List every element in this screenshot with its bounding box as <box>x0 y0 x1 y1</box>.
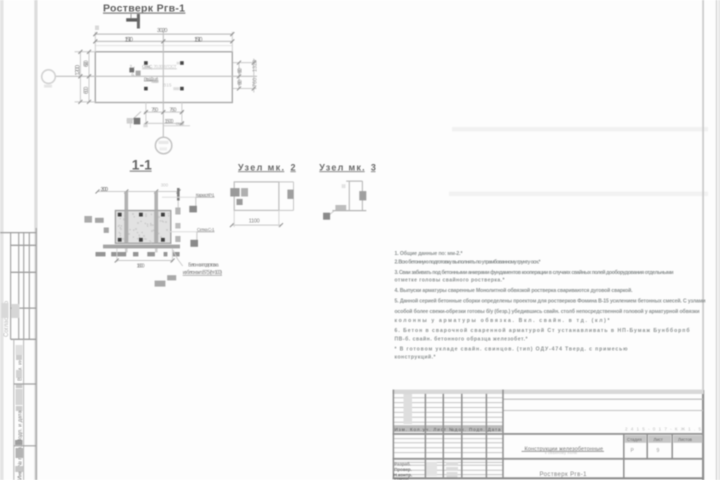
bottom dim ticks <box>144 110 184 125</box>
plan outline rectangle <box>95 52 232 103</box>
section body with stipple fill <box>115 211 170 244</box>
fold streak upper <box>452 127 708 131</box>
left paper edge shadow strip <box>0 0 4 480</box>
faint upper ledge line <box>95 45 232 47</box>
axis bubble bottom <box>155 137 171 153</box>
detail 3 leader blob <box>323 213 330 220</box>
svg-text:Утверд.: Утверд. <box>394 476 410 480</box>
title underline <box>103 12 185 13</box>
detail 3 leader <box>329 211 334 215</box>
detail 3 channel outline <box>346 180 362 182</box>
small text row under band <box>96 252 180 256</box>
axis bubble left <box>42 70 56 84</box>
svg-text:9: 9 <box>657 448 660 454</box>
detail 2 bottom dim line <box>232 224 281 226</box>
svg-text:2. Всю бетонную подготовку вып: 2. Всю бетонную подготовку выполнять по … <box>395 258 541 265</box>
bottom leader dark smudge <box>134 118 141 125</box>
bottom dim extension lines <box>146 103 182 126</box>
horizontal centerline through plan <box>55 75 257 77</box>
svg-text:Подп. и дата: Подп. и дата <box>18 410 24 443</box>
svg-text:3020: 3020 <box>157 28 168 34</box>
vertical centerline through plan <box>162 32 164 138</box>
right dim ticks <box>237 61 256 91</box>
stadia header cells <box>625 435 646 442</box>
pile strips inside section <box>124 211 128 244</box>
svg-text:1800: 1800 <box>137 263 145 269</box>
bottom border <box>393 477 704 479</box>
svg-text:конструкций.*: конструкций.* <box>395 354 436 361</box>
pile top-left <box>144 61 148 65</box>
detail 2 bolt blobs <box>230 188 239 196</box>
frame right border line (through title block, dark) <box>702 390 704 480</box>
top dimension line A <box>95 33 232 35</box>
bottom leader faint smudge <box>127 118 133 124</box>
svg-text:Ростверк Ргв-1: Ростверк Ргв-1 <box>540 472 588 478</box>
detail 3 faint square <box>342 184 346 188</box>
right extension mark dark <box>177 188 180 201</box>
tiny mark left of dim A <box>95 26 99 31</box>
plan annotation: dark square mark <box>129 68 134 73</box>
svg-text:Бетонная подготовка: Бетонная подготовка <box>188 263 219 269</box>
bottom dim line 2 <box>144 122 184 124</box>
svg-text:Стадия: Стадия <box>627 437 642 442</box>
bottom center smudge 2 <box>167 275 176 280</box>
svg-text:600: 600 <box>84 60 90 67</box>
plan annotation: leader text upper <box>147 66 152 70</box>
svg-text:ПВ-б. свайн. бетонного образца: ПВ-б. свайн. бетонного образца железобет… <box>395 335 528 342</box>
section top dim line <box>98 191 179 193</box>
svg-text:600: 600 <box>84 86 90 94</box>
right leader blob 1 <box>189 206 197 213</box>
left small text 1 <box>95 218 104 223</box>
header band izm-list <box>393 425 503 432</box>
svg-text:* В готовом укладе свайн. свин: * В готовом укладе свайн. свинцов. (тип)… <box>395 345 629 352</box>
svg-text:1-1: 1-1 <box>132 158 152 173</box>
bubble bottom inner smudge <box>159 141 169 144</box>
svg-text:Разраб.: Разраб. <box>394 461 411 466</box>
right edge mark column <box>175 208 180 215</box>
svg-text:к свайному полю: к свайному полю <box>545 451 577 455</box>
left dim stack lines <box>75 52 96 102</box>
svg-text:1510: 1510 <box>194 37 203 43</box>
svg-text:3. Сваи забивать под бетонными: 3. Сваи забивать под бетонными анкерами … <box>395 269 674 276</box>
concrete prep band below section <box>103 245 180 249</box>
svg-text:5. Данной серией бетонные сбор: 5. Данной серией бетонные сборки определ… <box>395 298 706 305</box>
detail 2 hatch block right <box>287 190 293 199</box>
rebar squares top row <box>118 213 122 217</box>
lower dim line of section <box>117 260 173 262</box>
svg-text:1500: 1500 <box>165 119 174 125</box>
title block top thick band <box>393 390 704 394</box>
svg-text:660: 660 <box>238 79 244 85</box>
pile top-right <box>180 61 184 65</box>
svg-text:760: 760 <box>252 78 258 87</box>
svg-text:Листов: Листов <box>678 437 693 442</box>
svg-text:6. Бетон в сварочной сваренной: 6. Бетон в сварочной сваренной арматурой… <box>395 327 690 334</box>
dark divider lines <box>393 434 704 459</box>
svg-text:см.2: см.2 <box>176 121 185 126</box>
right small leader line <box>163 125 190 127</box>
small smudge left of axis <box>143 124 147 127</box>
svg-text:Лист: Лист <box>654 437 663 442</box>
left stamp table rows <box>0 233 37 340</box>
detail 3 hatch block <box>359 191 366 200</box>
stipple texture <box>118 213 168 242</box>
svg-text:300: 300 <box>161 183 169 188</box>
bottom dim line 1 <box>144 111 184 113</box>
svg-text:750: 750 <box>151 108 158 114</box>
detail 3 shelf block <box>335 205 346 210</box>
frame left border line <box>34 0 37 480</box>
plan annotation grey block <box>136 71 141 76</box>
bottom center smudge 1 <box>155 281 166 287</box>
detail 2 side extension <box>279 181 294 183</box>
svg-text:4. Выпуски арматуры сваренные: 4. Выпуски арматуры сваренные Монолитной… <box>395 287 634 294</box>
title block verticals <box>393 390 672 479</box>
right leader elbow 1 <box>193 197 196 209</box>
left small text 2 <box>104 228 109 233</box>
leader to prep band <box>173 250 183 266</box>
frame right border line (upper, faint) <box>702 0 704 390</box>
svg-text:1320: 1320 <box>252 60 258 72</box>
detail 2 plate rectangle <box>234 182 279 211</box>
rebar squares bottom row <box>118 238 122 242</box>
section dim ticks <box>96 190 181 194</box>
svg-text:Изм. Кол.уч. Лист №док. Подп.: Изм. Кол.уч. Лист №док. Подп. Дата <box>395 427 501 432</box>
svg-text:750: 750 <box>169 108 176 114</box>
change-table light rows <box>393 398 503 475</box>
scan edge double line right <box>716 0 717 480</box>
svg-text:1100: 1100 <box>249 219 260 225</box>
detail 3 bottom line <box>332 210 366 212</box>
svg-text:особой более свежи-обрезки гот: особой более свежи-обрезки готовы б/у (б… <box>395 308 700 315</box>
pile axis strips above section <box>125 192 129 211</box>
right dim stack <box>233 59 257 93</box>
pile leader marks faint <box>177 62 180 65</box>
svg-text:1510: 1510 <box>125 37 134 43</box>
pile strip stubs below band <box>125 248 128 252</box>
svg-text:660: 660 <box>238 68 244 74</box>
svg-text:1. Общие данные по: мм-2.*: 1. Общие данные по: мм-2.* <box>395 250 463 257</box>
signature smudges <box>446 462 458 465</box>
svg-text:300: 300 <box>101 187 108 193</box>
faint signature column band <box>404 394 413 424</box>
axis bubble left smudge <box>44 85 52 88</box>
pile bottom-left <box>144 87 148 91</box>
dim ticks top <box>93 32 234 43</box>
fold streak lower <box>449 192 708 197</box>
top dim extension lines <box>95 32 232 52</box>
top dimension line B <box>95 40 232 42</box>
svg-text:В15: В15 <box>163 83 172 88</box>
svg-text:1200: 1200 <box>74 65 81 76</box>
svg-text:отметке головы свайного ростве: отметке головы свайного ростверка.* <box>395 277 505 284</box>
band extension verticals <box>116 248 118 262</box>
lower attachment column verticals <box>14 339 24 480</box>
attachment column dividers <box>14 384 36 446</box>
right section top line <box>503 398 703 400</box>
pile bottom-right <box>180 87 184 91</box>
left dim ticks <box>78 50 91 104</box>
scale mark under title <box>126 18 140 21</box>
right leader elbow 2 <box>194 232 197 243</box>
svg-text:Провер.: Провер. <box>394 467 412 472</box>
left edge marks <box>84 216 92 223</box>
detail 2 extension lines down <box>233 210 235 227</box>
left stamp table verticals <box>11 228 37 480</box>
svg-text:монолит: монолит <box>151 79 159 84</box>
right leader blob 2 <box>190 240 198 247</box>
bottom leader polyline <box>127 112 142 121</box>
section title underline <box>130 170 152 172</box>
